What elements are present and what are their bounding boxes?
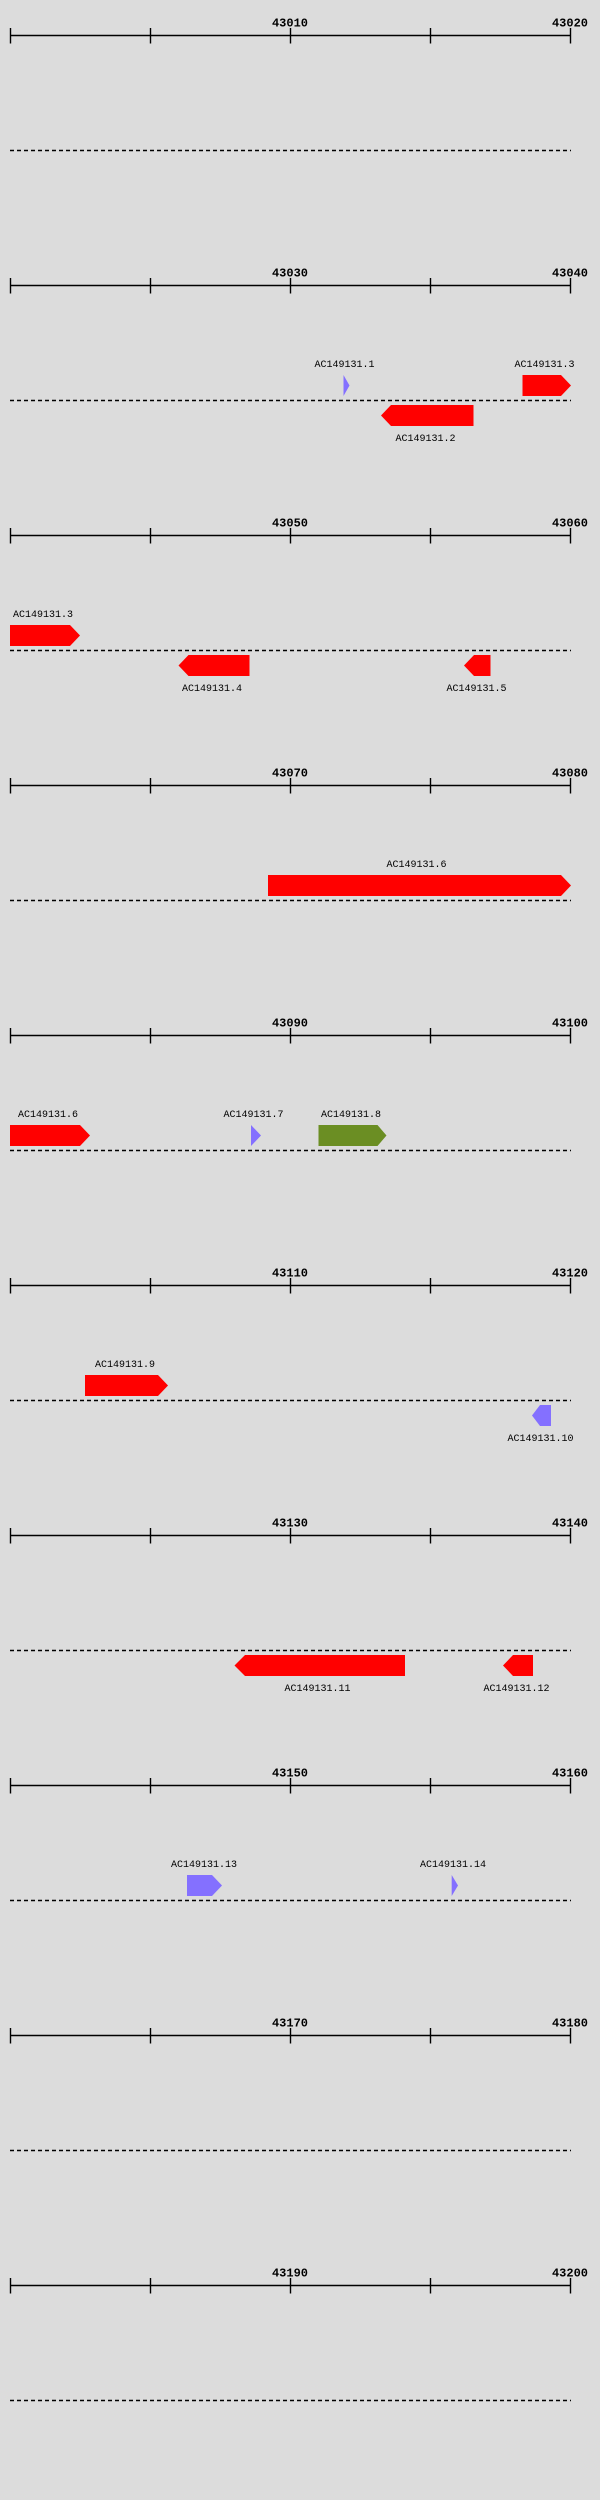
gene arrow AC149131.5 [464,655,491,676]
ruler tick 43080 [570,778,572,794]
ruler tick 43160 [570,1778,572,1794]
svg-text:43140: 43140 [552,1517,588,1531]
ruler base line panel 2 [10,285,571,287]
ruler tick 43005 [150,28,152,44]
svg-text:43130: 43130 [272,1517,308,1531]
svg-text:43200: 43200 [552,2267,588,2281]
svg-text:43030: 43030 [272,267,308,281]
svg-text:43120: 43120 [552,1267,588,1281]
svg-text:AC149131.7: AC149131.7 [223,1110,283,1121]
svg-text:AC149131.13: AC149131.13 [171,1860,237,1871]
ruler tick 43145 [150,1778,152,1794]
ruler tick 43100 [10,1278,12,1294]
ruler tick 43140 [10,1778,12,1794]
gene arrow AC149131.9 [85,1375,168,1396]
svg-text:AC149131.9: AC149131.9 [95,1360,155,1371]
ruler tick 43110 [290,1278,292,1294]
ruler base line panel 8 [10,1785,571,1787]
ruler tick 43165 [150,2028,152,2044]
ruler tick 43120 [10,1528,12,1544]
ruler tick 43025 [150,278,152,294]
ruler tick 43105 [150,1278,152,1294]
svg-text:43190: 43190 [272,2267,308,2281]
panel 7: region 43120-43140 [0,1500,600,1750]
svg-text:43110: 43110 [272,1267,308,1281]
gene arrow AC149131.2 [381,405,474,426]
ruler tick 43185 [150,2278,152,2294]
ruler tick 43120 [570,1278,572,1294]
gene arrow AC149131.6 [268,875,571,896]
panel 10: region 43180-43200 [0,2250,600,2500]
ruler tick 43170 [290,2028,292,2044]
ruler tick 43070 [290,778,292,794]
ruler base line panel 3 [10,535,571,537]
ruler base line panel 7 [10,1535,571,1537]
ruler tick 43050 [290,528,292,544]
ruler tick 43020 [570,28,572,44]
svg-text:AC149131.12: AC149131.12 [483,1684,549,1695]
ruler tick 43180 [10,2278,12,2294]
dashed strand divider line panel 5 [10,1150,571,1152]
svg-text:43010: 43010 [272,17,308,31]
ruler tick 43010 [290,28,292,44]
ruler tick 43035 [430,278,432,294]
ruler tick 43155 [430,1778,432,1794]
gene arrow AC149131.4 [179,655,250,676]
ruler tick 43130 [290,1528,292,1544]
ruler tick 43060 [570,528,572,544]
svg-text:AC149131.11: AC149131.11 [284,1684,350,1695]
svg-text:AC149131.5: AC149131.5 [446,684,506,695]
ruler tick 43045 [150,528,152,544]
ruler tick 43150 [290,1778,292,1794]
ruler tick 43030 [290,278,292,294]
gene arrow AC149131.6 [10,1125,90,1146]
svg-text:AC149131.2: AC149131.2 [395,434,455,445]
ruler tick 43100 [570,1028,572,1044]
ruler tick 43125 [150,1528,152,1544]
svg-text:AC149131.4: AC149131.4 [182,684,242,695]
gene arrow AC149131.10 [532,1405,551,1426]
ruler tick 43115 [430,1278,432,1294]
ruler tick 43075 [430,778,432,794]
svg-text:43080: 43080 [552,767,588,781]
ruler tick 43065 [150,778,152,794]
ruler tick 43060 [10,778,12,794]
svg-text:43160: 43160 [552,1767,588,1781]
ruler base line panel 1 [10,35,571,37]
svg-text:43180: 43180 [552,2017,588,2031]
dashed strand divider line panel 6 [10,1400,571,1402]
ruler tick 43020 [10,278,12,294]
svg-text:AC149131.1: AC149131.1 [314,360,374,371]
svg-text:43060: 43060 [552,517,588,531]
svg-text:43150: 43150 [272,1767,308,1781]
panel 1: region 43000-43020 [0,0,600,250]
dashed strand divider line panel 1 [10,150,571,152]
gene arrow AC149131.14 [452,1875,458,1896]
panel 2: region 43020-43040 [0,250,600,500]
ruler tick 43160 [10,2028,12,2044]
ruler tick 43095 [430,1028,432,1044]
ruler base line panel 4 [10,785,571,787]
svg-text:43170: 43170 [272,2017,308,2031]
svg-text:AC149131.3: AC149131.3 [514,360,574,371]
ruler base line panel 6 [10,1285,571,1287]
svg-text:AC149131.6: AC149131.6 [18,1110,78,1121]
ruler tick 43190 [290,2278,292,2294]
svg-text:43100: 43100 [552,1017,588,1031]
svg-text:43070: 43070 [272,767,308,781]
dashed strand divider line panel 8 [10,1900,571,1902]
svg-text:AC149131.14: AC149131.14 [420,1860,486,1871]
svg-text:AC149131.8: AC149131.8 [321,1110,381,1121]
ruler tick 43200 [570,2278,572,2294]
gene arrow AC149131.3 [523,375,572,396]
ruler tick 43140 [570,1528,572,1544]
gene arrow AC149131.1 [344,375,350,396]
ruler tick 43040 [570,278,572,294]
ruler tick 43015 [430,28,432,44]
gene arrow AC149131.11 [235,1655,406,1676]
ruler tick 43195 [430,2278,432,2294]
ruler base line panel 9 [10,2035,571,2037]
svg-text:43090: 43090 [272,1017,308,1031]
svg-text:43020: 43020 [552,17,588,31]
svg-text:43050: 43050 [272,517,308,531]
panel 4: region 43060-43080 [0,750,600,1000]
svg-text:AC149131.6: AC149131.6 [386,860,446,871]
panel 9: region 43160-43180 [0,2000,600,2250]
ruler tick 43000 [10,28,12,44]
panel 3: region 43040-43060 [0,500,600,750]
ruler tick 43090 [290,1028,292,1044]
ruler tick 43080 [10,1028,12,1044]
svg-text:AC149131.3: AC149131.3 [13,610,73,621]
ruler base line panel 10 [10,2285,571,2287]
ruler base line panel 5 [10,1035,571,1037]
panel 5: region 43080-43100 [0,1000,600,1250]
ruler tick 43135 [430,1528,432,1544]
ruler tick 43180 [570,2028,572,2044]
dashed strand divider line panel 10 [10,2400,571,2402]
gene arrow AC149131.13 [187,1875,222,1896]
ruler tick 43085 [150,1028,152,1044]
dashed strand divider line panel 4 [10,900,571,902]
dashed strand divider line panel 2 [10,400,571,402]
dashed strand divider line panel 9 [10,2150,571,2152]
gene arrow AC149131.12 [503,1655,533,1676]
gene arrow AC149131.3 [10,625,80,646]
panel 6: region 43100-43120 [0,1250,600,1500]
dashed strand divider line panel 7 [10,1650,571,1652]
panel 8: region 43140-43160 [0,1750,600,2000]
dashed strand divider line panel 3 [10,650,571,652]
ruler tick 43055 [430,528,432,544]
gene arrow AC149131.7 [251,1125,261,1146]
svg-text:AC149131.10: AC149131.10 [507,1434,573,1445]
svg-text:43040: 43040 [552,267,588,281]
ruler tick 43175 [430,2028,432,2044]
ruler tick 43040 [10,528,12,544]
gene arrow AC149131.8 [319,1125,387,1146]
